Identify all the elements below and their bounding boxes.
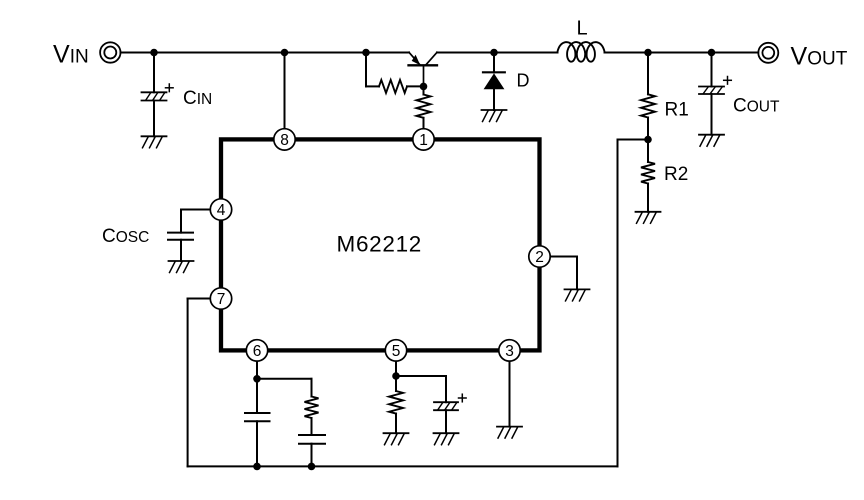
resistor pin6 compensation bbox=[305, 397, 319, 419]
terminal VIN bbox=[100, 42, 120, 62]
svg-text:3: 3 bbox=[505, 343, 514, 360]
wire feedback to pin 7 loop bbox=[618, 139, 649, 141]
wire rail to pin 8 bbox=[284, 53, 286, 130]
ground at pin2 bbox=[565, 288, 590, 290]
resistor base-to-pin1 (vertical) bbox=[423, 86, 425, 94]
resistor R1 bbox=[641, 94, 655, 117]
svg-text:L: L bbox=[577, 18, 588, 40]
wire pin5 down bbox=[395, 361, 397, 376]
ground under Cosc bbox=[169, 260, 194, 262]
node at base-resistor tap bbox=[362, 49, 370, 57]
svg-text:CIN: CIN bbox=[183, 88, 212, 109]
wire cap to bottom return bbox=[256, 421, 258, 466]
wire diode drop bbox=[493, 53, 495, 73]
svg-text:COSC: COSC bbox=[102, 226, 149, 247]
pin 3 bbox=[499, 340, 520, 361]
wire CIN drop bbox=[153, 53, 155, 93]
capacitor pin6 series bbox=[299, 434, 325, 436]
capacitor at pin6 (left) bbox=[245, 412, 270, 414]
wire pin2 to ground bbox=[550, 256, 577, 258]
capacitor COUT bbox=[699, 86, 724, 88]
node at CIN tap bbox=[150, 49, 158, 57]
svg-text:R2: R2 bbox=[664, 164, 688, 185]
svg-text:5: 5 bbox=[392, 343, 401, 360]
capacitor at pin5 (polarized) bbox=[434, 401, 458, 403]
node feedback divider bbox=[644, 136, 652, 144]
wire Cosc to ground bbox=[180, 240, 182, 261]
wire cap to ground bbox=[445, 410, 447, 433]
node bottom left bbox=[253, 463, 261, 471]
ground under diode bbox=[482, 109, 507, 111]
node bottom mid bbox=[308, 463, 316, 471]
wire bottom return bbox=[188, 465, 618, 467]
wire collector rail to inductor bbox=[437, 52, 558, 54]
capacitor Cosc bbox=[168, 232, 193, 234]
resistor base drive (horizontal) bbox=[379, 80, 407, 93]
wire to R2 bbox=[647, 140, 649, 163]
wire pin5 to resistor bbox=[395, 376, 397, 391]
wire to COUT bbox=[711, 53, 713, 87]
pin 2 bbox=[529, 246, 550, 267]
svg-text:4: 4 bbox=[217, 202, 226, 219]
terminal VOUT bbox=[758, 43, 778, 63]
ground under pin5 cap bbox=[434, 432, 459, 434]
IC M62212 body bbox=[221, 139, 540, 350]
ground under COUT bbox=[699, 134, 724, 136]
ground at pin3 bbox=[497, 426, 522, 428]
wire pin3 to ground bbox=[509, 361, 511, 427]
wire series cap to bottom return bbox=[311, 444, 313, 467]
capacitor CIN bbox=[142, 91, 167, 93]
ground under CIN bbox=[142, 135, 167, 137]
diode D bbox=[483, 71, 505, 73]
pin 7 bbox=[210, 288, 231, 309]
node pin5 branch bbox=[392, 372, 400, 380]
svg-text:R1: R1 bbox=[665, 100, 689, 121]
node at R1 tap bbox=[644, 49, 652, 57]
wire R1 to feedback node bbox=[647, 118, 649, 140]
pin 8 bbox=[274, 129, 295, 150]
wire inductor to VOUT bbox=[605, 52, 759, 54]
wire rail to base resistor bbox=[365, 53, 367, 87]
wire up to pin 7 bbox=[187, 299, 189, 467]
svg-text:7: 7 bbox=[217, 291, 226, 308]
inductor L bbox=[558, 42, 605, 62]
wire to R1 bbox=[647, 53, 649, 95]
svg-text:1: 1 bbox=[419, 132, 428, 149]
wire resistor to ground bbox=[395, 414, 397, 434]
wire COUT to ground bbox=[711, 94, 713, 135]
svg-text:8: 8 bbox=[280, 132, 289, 149]
wire pin4 to Cosc bbox=[181, 209, 210, 211]
node base bbox=[420, 83, 428, 91]
node pin6 branch bbox=[253, 375, 261, 383]
pin 6 bbox=[246, 340, 267, 361]
svg-text:6: 6 bbox=[253, 343, 262, 360]
ground under pin5 resistor bbox=[384, 432, 409, 434]
wire VIN rail to transistor emitter bbox=[121, 52, 409, 54]
wire pin6 down bbox=[256, 361, 258, 379]
pin 4 bbox=[210, 199, 231, 220]
wire R2 to ground bbox=[647, 184, 649, 212]
resistor at pin5 bbox=[389, 391, 403, 414]
wire pin5 node across bbox=[396, 375, 446, 377]
node at diode tap bbox=[490, 49, 498, 57]
pin 1 bbox=[413, 129, 434, 150]
wire pin6 node across bbox=[257, 378, 312, 380]
ground under R2 bbox=[636, 211, 661, 213]
svg-text:VOUT: VOUT bbox=[791, 43, 848, 71]
svg-text:D: D bbox=[517, 71, 530, 91]
pin 5 bbox=[385, 340, 406, 361]
wire pin6 node to cap bbox=[256, 379, 258, 413]
svg-text:COUT: COUT bbox=[733, 96, 780, 117]
wire resistor to base node bbox=[407, 85, 424, 87]
svg-text:2: 2 bbox=[535, 249, 544, 266]
wire CIN to ground bbox=[153, 101, 155, 137]
wire resistor to series cap bbox=[311, 418, 313, 435]
node at pin8 tap bbox=[281, 49, 289, 57]
transistor Q1 (PNP switch) bbox=[409, 64, 438, 66]
svg-text:VIN: VIN bbox=[53, 41, 89, 69]
resistor R2 bbox=[641, 162, 655, 184]
svg-text:M62212: M62212 bbox=[337, 232, 423, 257]
node at COUT tap bbox=[708, 49, 716, 57]
